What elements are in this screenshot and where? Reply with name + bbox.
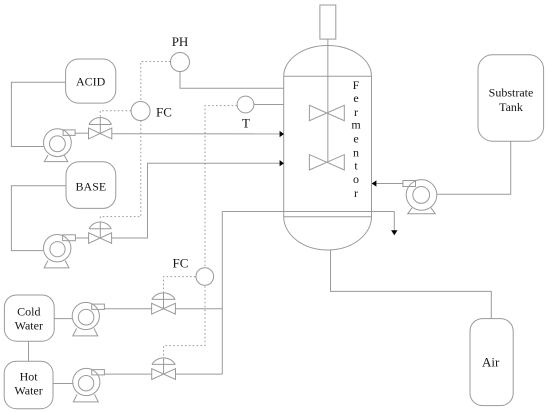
pipe water drain drop	[393, 212, 395, 231]
svg-text:ACID: ACID	[76, 75, 106, 89]
pipe cold water	[54, 309, 222, 319]
signal T to FC2	[205, 106, 237, 268]
svg-text:Cold: Cold	[17, 304, 40, 318]
signal FC1 to base valve	[100, 121, 141, 221]
pipe air sparge	[331, 250, 492, 319]
pipe water header riser	[221, 212, 223, 375]
svg-text:Water: Water	[15, 318, 43, 332]
pump P4 hot water	[73, 368, 105, 402]
pipe acid discharge to fermenter	[75, 132, 280, 135]
svg-text:t: t	[354, 159, 358, 173]
pipe T probe	[254, 104, 284, 106]
instrument PH	[171, 34, 190, 72]
signal FC2 to cold valve	[164, 277, 196, 293]
valve V3 cold water	[152, 293, 176, 314]
tank Substrate Tank	[478, 55, 544, 141]
pipe jacket water line across vessel	[222, 211, 394, 213]
svg-text:n: n	[353, 145, 359, 159]
svg-text:e: e	[353, 91, 358, 105]
svg-text:FC: FC	[156, 105, 172, 120]
arrow acid into fermenter	[280, 131, 284, 137]
tank Hot Water	[4, 361, 53, 408]
impeller 1	[309, 105, 344, 120]
svg-text:r: r	[354, 186, 358, 200]
arrow base into fermenter	[280, 160, 284, 166]
instrument FC1	[131, 102, 172, 121]
svg-text:F: F	[353, 78, 360, 92]
wire cold-hot tank connector	[28, 341, 30, 361]
svg-text:Hot: Hot	[20, 369, 39, 383]
pipe substrate feed	[376, 141, 510, 194]
pump P5 substrate (mirrored)	[403, 180, 437, 214]
pipe hot water	[53, 374, 222, 383]
pipe base discharge to fermenter	[75, 163, 279, 238]
pump P2 base	[44, 235, 76, 268]
agitator shaft	[327, 39, 329, 162]
svg-text:o: o	[353, 172, 359, 186]
pump P1 acid	[44, 129, 76, 162]
signal FC2 to hot valve	[164, 286, 205, 358]
impeller 2	[309, 155, 344, 170]
svg-text:BASE: BASE	[76, 180, 107, 194]
pump P3 cold water	[72, 302, 104, 336]
instrument FC2	[173, 256, 214, 286]
valve V4 hot water	[152, 358, 176, 380]
svg-text:T: T	[242, 116, 250, 131]
signal PH to FC1	[141, 62, 171, 102]
motor M1 on vessel top	[320, 5, 336, 39]
pipe base suction	[11, 186, 66, 251]
tank Cold Water	[4, 295, 54, 341]
vessel fermenter shell	[284, 46, 372, 250]
svg-text:FC: FC	[173, 256, 189, 271]
signal FC1 to acid valve	[100, 111, 131, 117]
svg-text:PH: PH	[172, 34, 189, 49]
pipe PH probe	[180, 72, 284, 89]
svg-text:e: e	[353, 131, 358, 145]
svg-text:Air: Air	[482, 355, 500, 370]
valve V2 base	[89, 222, 112, 243]
instrument T	[237, 96, 254, 130]
tank Air	[470, 319, 513, 406]
tank BASE	[66, 162, 116, 209]
tank ACID	[66, 59, 116, 103]
svg-text:Tank: Tank	[499, 100, 523, 114]
valve V1 acid	[89, 117, 112, 139]
label Fermentor (vertical)	[351, 78, 361, 200]
svg-text:Substrate: Substrate	[489, 86, 534, 100]
arrow water drain down	[391, 230, 397, 235]
pipe acid suction	[11, 82, 65, 146]
arrow substrate into fermenter	[372, 180, 377, 186]
svg-text:m: m	[351, 117, 361, 131]
svg-text:Water: Water	[14, 383, 42, 397]
